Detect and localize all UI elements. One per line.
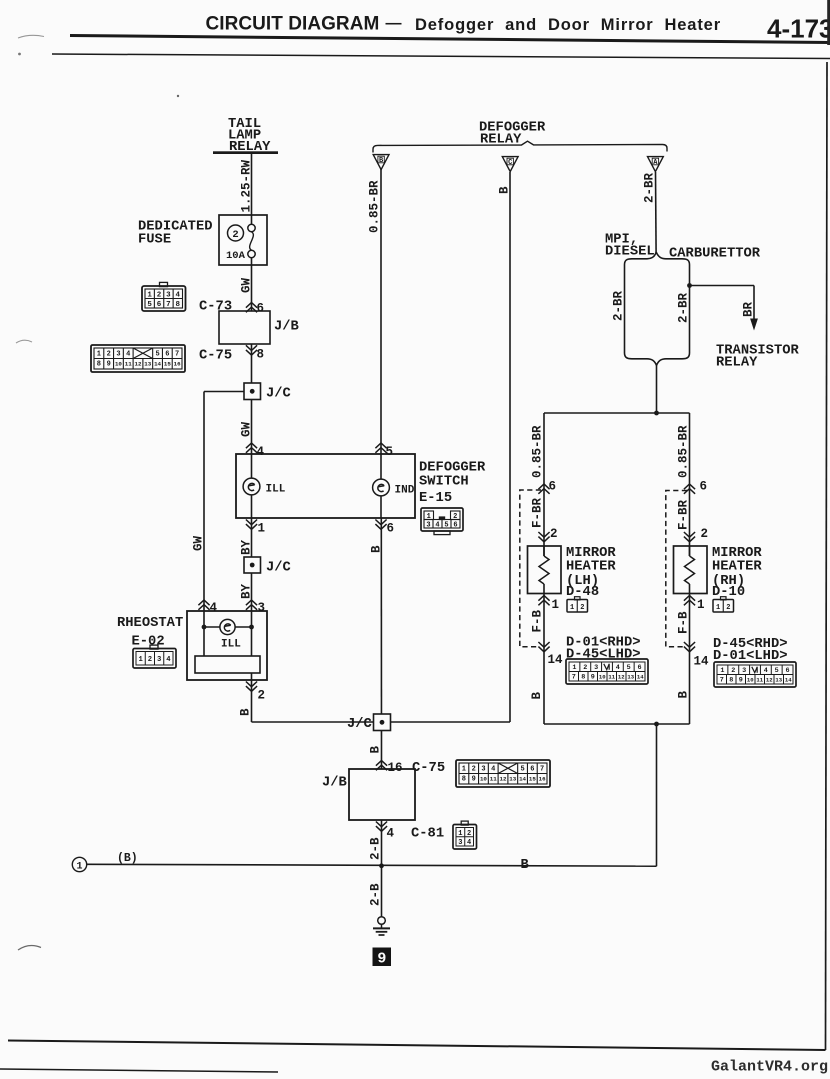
header rule 2 xyxy=(52,54,830,59)
svg-text:1: 1 xyxy=(76,861,82,872)
label mirror RH pin 14 xyxy=(684,642,695,652)
svg-text:1: 1 xyxy=(572,664,576,672)
label mirror LH pin 14 xyxy=(538,642,549,652)
wire: relay C down, B xyxy=(509,172,511,722)
svg-text:1: 1 xyxy=(716,604,720,612)
relay terminal C xyxy=(502,157,518,172)
svg-text:12: 12 xyxy=(618,674,625,681)
svg-text:4: 4 xyxy=(257,445,265,459)
svg-text:1: 1 xyxy=(720,667,724,675)
svg-text:7: 7 xyxy=(166,301,171,309)
svg-text:2: 2 xyxy=(258,689,266,703)
svg-text:0.85-BR: 0.85-BR xyxy=(368,180,382,233)
label mirror RH pin 1 xyxy=(684,596,695,606)
fork merge xyxy=(624,352,689,366)
svg-text:10: 10 xyxy=(599,674,606,681)
fork split xyxy=(624,252,689,266)
svg-text:7: 7 xyxy=(572,674,576,682)
svg-text:6: 6 xyxy=(165,350,169,358)
svg-text:14: 14 xyxy=(637,674,644,681)
svg-text:3: 3 xyxy=(481,765,485,773)
junction block J/B lower xyxy=(349,769,415,820)
mirror heater RH box xyxy=(674,546,708,594)
connector icon E-15 xyxy=(421,508,463,531)
label mirror RH pin 6 xyxy=(684,484,695,494)
wire: relay B to switch pin 5, 0.85-BR xyxy=(380,168,382,454)
svg-text:RELAY: RELAY xyxy=(716,356,758,371)
label rheostat pin 2 xyxy=(246,682,257,692)
svg-text:4: 4 xyxy=(176,292,181,300)
resistor RH xyxy=(689,546,691,556)
svg-text:14: 14 xyxy=(548,653,564,667)
svg-text:J/C: J/C xyxy=(347,716,372,732)
svg-text:C-75: C-75 xyxy=(412,761,445,776)
rheostat internal wires xyxy=(251,611,253,656)
svg-text:8: 8 xyxy=(176,301,181,309)
svg-text:1: 1 xyxy=(697,598,705,612)
svg-text:F-B: F-B xyxy=(531,609,545,632)
svg-text:2: 2 xyxy=(107,350,111,358)
svg-text:3: 3 xyxy=(742,667,746,675)
svg-text:6: 6 xyxy=(530,765,534,773)
svg-text:8: 8 xyxy=(462,776,466,784)
svg-text:16: 16 xyxy=(388,761,403,775)
svg-text:8: 8 xyxy=(729,677,733,685)
svg-text:6: 6 xyxy=(387,522,395,536)
svg-text:F-BR: F-BR xyxy=(531,497,545,528)
svg-text:B: B xyxy=(677,691,691,699)
svg-text:8: 8 xyxy=(257,348,265,362)
svg-text:0.85-BR: 0.85-BR xyxy=(677,425,691,478)
svg-text:16: 16 xyxy=(174,361,181,368)
svg-text:2: 2 xyxy=(726,604,730,612)
svg-text:14: 14 xyxy=(154,361,161,368)
svg-text:10: 10 xyxy=(480,776,487,783)
svg-text:4: 4 xyxy=(491,765,495,773)
svg-text:C-73: C-73 xyxy=(199,300,232,315)
svg-text:11: 11 xyxy=(125,361,132,368)
bottom left page edge xyxy=(0,1069,278,1072)
junction connector J/C upper xyxy=(244,383,261,400)
wire: mirror LH column 0.85-BR xyxy=(543,413,545,556)
rheostat box xyxy=(187,611,267,680)
svg-text:B: B xyxy=(530,692,544,700)
svg-text:D-10: D-10 xyxy=(712,585,745,600)
svg-text:4: 4 xyxy=(764,667,768,675)
junction block J/B upper xyxy=(219,311,270,344)
svg-text:6: 6 xyxy=(638,664,642,672)
wire: J/B pin 4 to ground, 2-B xyxy=(381,820,383,917)
svg-text:2: 2 xyxy=(232,229,238,241)
connector icon E-02 xyxy=(150,645,158,649)
svg-text:2-BR: 2-BR xyxy=(643,172,657,203)
svg-text:B: B xyxy=(369,746,383,754)
svg-text:7: 7 xyxy=(720,677,724,685)
wire: switch pin 1 to rheostat pin 3, BY xyxy=(251,518,253,611)
connector icon C-75 xyxy=(91,345,185,372)
wire: J/C branch to rheostat pin 4, GW xyxy=(204,391,244,393)
svg-text:3: 3 xyxy=(258,601,266,615)
svg-text:BY: BY xyxy=(240,583,254,599)
defogger relay bracket line xyxy=(373,141,667,152)
fork right branch, 2-BR xyxy=(689,266,691,353)
svg-text:B: B xyxy=(239,708,253,716)
wire: mirror bottom rail xyxy=(544,723,690,725)
svg-text:E-02: E-02 xyxy=(132,635,165,650)
svg-text:1: 1 xyxy=(97,350,101,358)
svg-text:9: 9 xyxy=(591,674,595,682)
svg-text:2: 2 xyxy=(148,656,152,664)
svg-text:6: 6 xyxy=(257,302,265,316)
svg-text:GW: GW xyxy=(192,535,206,551)
svg-text:5: 5 xyxy=(775,667,779,675)
svg-text:J/B: J/B xyxy=(322,775,347,791)
svg-text:4: 4 xyxy=(616,664,620,672)
svg-text:1.25-RW: 1.25-RW xyxy=(240,159,254,212)
wire: mirror RH column 0.85-BR xyxy=(689,413,691,556)
label mirror LH pin 2 xyxy=(538,532,549,542)
label mirror LH pin 1 xyxy=(538,596,549,606)
svg-text:9: 9 xyxy=(377,950,386,967)
top right page edge xyxy=(827,0,830,45)
svg-text:13: 13 xyxy=(144,361,151,368)
svg-text:BR: BR xyxy=(742,301,756,317)
wire: rheostat pin 2 to bottom run, B xyxy=(251,673,253,722)
svg-text:D-48: D-48 xyxy=(566,585,599,600)
svg-text:GW: GW xyxy=(240,421,254,437)
svg-text:4: 4 xyxy=(387,827,395,841)
page section mark 9 xyxy=(373,948,392,967)
svg-text:DIESEL: DIESEL xyxy=(605,245,655,260)
svg-text:9: 9 xyxy=(739,677,743,685)
bottom page border xyxy=(8,1041,826,1051)
door boundary dashed LH xyxy=(520,490,541,647)
svg-text:13: 13 xyxy=(627,674,634,681)
svg-text:3: 3 xyxy=(594,664,598,672)
svg-text:14: 14 xyxy=(519,776,526,783)
svg-text:C: C xyxy=(508,159,512,167)
svg-text:GalantVR4.org: GalantVR4.org xyxy=(711,1059,828,1075)
wire: mirror top rail xyxy=(544,412,690,414)
svg-text:1: 1 xyxy=(138,656,143,664)
connector icon D RH xyxy=(714,662,796,687)
label mirror LH pin 6 xyxy=(538,484,549,494)
wire: merge down to mirror rail xyxy=(656,365,658,413)
dedicated fuse box xyxy=(219,215,267,265)
label rheostat pin 4 xyxy=(198,600,209,610)
connector icon C-75 lower xyxy=(456,760,550,787)
svg-text:1: 1 xyxy=(570,604,574,612)
svg-text:14: 14 xyxy=(785,677,792,684)
svg-text:6: 6 xyxy=(700,480,708,494)
svg-text:5: 5 xyxy=(520,765,524,773)
svg-text:6: 6 xyxy=(786,667,790,675)
svg-text:3: 3 xyxy=(116,350,120,358)
svg-text:6: 6 xyxy=(453,522,457,530)
svg-text:J/C: J/C xyxy=(266,386,291,402)
label switch pin 1 xyxy=(246,520,257,530)
svg-text:4: 4 xyxy=(210,601,218,615)
fork left branch, 2-BR xyxy=(624,266,626,353)
junction connector J/C mid xyxy=(244,557,261,573)
svg-text:1: 1 xyxy=(147,292,152,300)
svg-text:12: 12 xyxy=(135,361,142,368)
svg-text:1: 1 xyxy=(462,765,466,773)
svg-text:J/B: J/B xyxy=(274,319,299,335)
svg-text:A: A xyxy=(653,159,658,167)
svg-text:2-BR: 2-BR xyxy=(612,290,626,321)
wire: fuse to J/B C-73, GW xyxy=(251,258,253,311)
right page border xyxy=(826,62,828,1050)
defogger switch box xyxy=(236,454,415,518)
svg-text:15: 15 xyxy=(164,361,171,368)
svg-text:ILL: ILL xyxy=(221,639,241,651)
label mirror RH pin 2 xyxy=(684,532,695,542)
label C-75 pin 16 xyxy=(376,761,387,771)
rheostat lamp ILL xyxy=(220,619,235,634)
svg-text:4: 4 xyxy=(435,522,439,530)
svg-text:6: 6 xyxy=(549,480,557,494)
svg-text:D-45<LHD>: D-45<LHD> xyxy=(566,648,641,663)
label C-75 pin 8 xyxy=(246,345,257,355)
svg-text:F-B: F-B xyxy=(677,611,691,634)
svg-text:Defogger and Door Mirror Heate: Defogger and Door Mirror Heater xyxy=(415,16,721,34)
svg-text:HEATER: HEATER xyxy=(566,560,616,575)
svg-text:3: 3 xyxy=(426,522,430,530)
svg-text:1: 1 xyxy=(258,522,266,536)
svg-text:5: 5 xyxy=(386,445,394,459)
svg-text:4: 4 xyxy=(126,350,130,358)
relay terminal A xyxy=(648,157,664,172)
svg-text:IND: IND xyxy=(395,485,415,497)
ground xyxy=(378,917,386,925)
svg-text:2: 2 xyxy=(467,830,471,838)
svg-text:SWITCH: SWITCH xyxy=(419,475,469,490)
svg-text:6: 6 xyxy=(157,301,162,309)
connector icon C-81 xyxy=(461,821,468,825)
svg-text:CIRCUIT DIAGRAM: CIRCUIT DIAGRAM xyxy=(206,14,380,35)
svg-text:3: 3 xyxy=(157,656,161,664)
header rule 1 xyxy=(70,36,830,43)
svg-text:5: 5 xyxy=(627,664,631,672)
svg-text:B: B xyxy=(521,858,529,873)
lamp IND xyxy=(380,454,382,479)
svg-text:—: — xyxy=(386,15,402,32)
connector icon D-48 xyxy=(575,597,581,600)
connector icon D-10 xyxy=(721,597,727,600)
label C-81 pin 4 xyxy=(376,822,387,832)
svg-text:7: 7 xyxy=(540,765,544,773)
junction connector J/C bottom xyxy=(374,714,391,731)
label switch pin 4 xyxy=(246,443,257,453)
svg-text:J/C: J/C xyxy=(266,560,291,576)
fuse element xyxy=(248,224,255,231)
wire: switch pin 6 to J/B lower, B xyxy=(380,518,382,769)
svg-text:8: 8 xyxy=(581,674,585,682)
svg-text:12: 12 xyxy=(500,776,507,783)
svg-text:2: 2 xyxy=(157,292,162,300)
svg-text:C-75: C-75 xyxy=(199,349,232,364)
tail lamp relay bar xyxy=(213,151,278,154)
svg-text:4: 4 xyxy=(166,656,171,664)
rheostat element xyxy=(195,656,260,673)
svg-text:2-B: 2-B xyxy=(369,883,383,906)
svg-text:16: 16 xyxy=(539,776,546,783)
connector icon D LH xyxy=(566,659,648,684)
svg-text:11: 11 xyxy=(756,677,763,684)
wire: relay A down, 2-BR xyxy=(655,172,658,252)
svg-text:GW: GW xyxy=(240,277,254,293)
svg-text:9: 9 xyxy=(472,776,476,784)
svg-text:13: 13 xyxy=(775,677,782,684)
svg-text:3: 3 xyxy=(166,292,171,300)
scan artifact marks xyxy=(18,35,44,38)
svg-text:11: 11 xyxy=(490,776,497,783)
svg-text:13: 13 xyxy=(509,776,516,783)
svg-text:1: 1 xyxy=(552,598,560,612)
wire: branch to transistor relay, BR xyxy=(690,285,755,287)
svg-text:HEATER: HEATER xyxy=(712,560,762,575)
svg-text:10A: 10A xyxy=(226,250,246,262)
node: earth line junction xyxy=(379,863,384,868)
svg-text:B: B xyxy=(498,186,512,194)
mirror heater LH box xyxy=(528,546,562,594)
svg-text:B: B xyxy=(379,157,384,165)
svg-text:2: 2 xyxy=(583,664,587,672)
connector icon C-73 xyxy=(160,282,168,286)
wire: bottom horizontal run to C wire xyxy=(252,721,511,723)
svg-text:FUSE: FUSE xyxy=(138,233,171,248)
svg-text:RHEOSTAT: RHEOSTAT xyxy=(117,616,183,631)
svg-text:1: 1 xyxy=(458,830,462,838)
svg-text:E-15: E-15 xyxy=(419,491,452,506)
svg-text:3: 3 xyxy=(458,839,462,847)
svg-text:5: 5 xyxy=(155,350,159,358)
svg-text:5: 5 xyxy=(444,522,448,530)
svg-text:2: 2 xyxy=(701,527,709,541)
svg-text:15: 15 xyxy=(529,776,536,783)
svg-text:2: 2 xyxy=(731,667,735,675)
svg-text:12: 12 xyxy=(766,677,773,684)
svg-text:10: 10 xyxy=(747,677,754,684)
svg-text:4-173: 4-173 xyxy=(767,14,830,44)
svg-text:(B): (B) xyxy=(117,852,138,865)
wire: J/B C-75 to defogger switch pin 4, GW xyxy=(251,344,253,454)
svg-text:11: 11 xyxy=(608,674,615,681)
svg-text:B: B xyxy=(370,545,384,553)
svg-text:2: 2 xyxy=(550,527,558,541)
lamp ILL xyxy=(251,454,253,478)
label switch pin 5 xyxy=(375,443,386,453)
node: branch to transistor relay xyxy=(687,283,692,288)
svg-text:5: 5 xyxy=(147,301,152,309)
svg-text:2: 2 xyxy=(580,604,584,612)
wire: relay to fuse, 1.25-RW xyxy=(251,154,253,224)
svg-text:7: 7 xyxy=(175,350,179,358)
label rheostat pin 3 xyxy=(246,600,257,610)
svg-text:C-81: C-81 xyxy=(411,827,444,842)
svg-text:ILL: ILL xyxy=(266,484,286,496)
svg-text:2-BR: 2-BR xyxy=(677,292,691,323)
label switch pin 6 xyxy=(375,520,386,530)
svg-text:8: 8 xyxy=(97,361,101,369)
relay terminal B xyxy=(373,155,389,170)
svg-text:F-BR: F-BR xyxy=(677,499,691,530)
svg-text:2-B: 2-B xyxy=(369,837,383,860)
svg-text:4: 4 xyxy=(467,839,471,847)
svg-text:9: 9 xyxy=(107,361,111,369)
svg-text:0.85-BR: 0.85-BR xyxy=(531,425,545,478)
svg-text:DEFOGGER: DEFOGGER xyxy=(419,461,486,476)
svg-text:14: 14 xyxy=(694,655,710,669)
resistor LH xyxy=(543,546,545,556)
terminal 1 xyxy=(72,857,86,871)
svg-text:BY: BY xyxy=(240,539,254,555)
door boundary dashed RH xyxy=(666,491,687,647)
svg-text:2: 2 xyxy=(472,765,476,773)
wire: earth line (B) xyxy=(87,864,657,866)
svg-text:10: 10 xyxy=(115,361,122,368)
wire: mirror rail to earth line xyxy=(656,724,658,866)
